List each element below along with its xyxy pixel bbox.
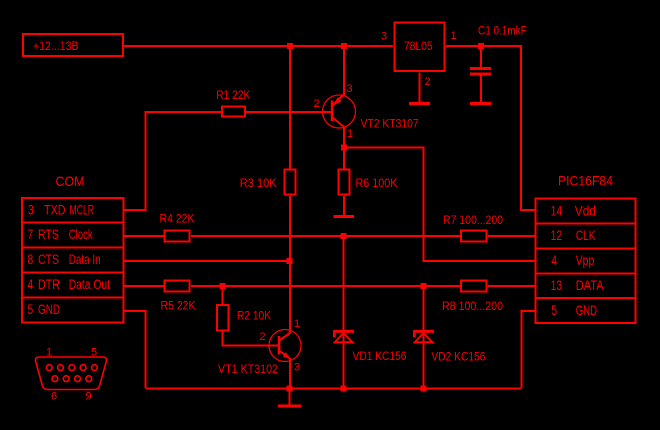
- svg-text:Data In: Data In: [69, 251, 101, 267]
- svg-text:R8 100...200: R8 100...200: [442, 301, 503, 313]
- svg-text:MCLR: MCLR: [70, 202, 95, 218]
- svg-text:GND: GND: [38, 301, 60, 317]
- svg-text:2: 2: [314, 98, 320, 110]
- svg-text:C1 0.1mkF: C1 0.1mkF: [478, 26, 527, 38]
- svg-text:14: 14: [551, 203, 563, 219]
- svg-text:2: 2: [425, 76, 431, 88]
- svg-text:CLK: CLK: [576, 227, 596, 243]
- svg-text:8: 8: [28, 251, 34, 267]
- svg-text:VT2 KT3107: VT2 KT3107: [361, 119, 419, 131]
- svg-text:1: 1: [46, 347, 52, 359]
- svg-text:TXD: TXD: [44, 202, 66, 218]
- svg-text:RTS: RTS: [38, 226, 59, 242]
- svg-text:2: 2: [260, 331, 266, 343]
- svg-text:5: 5: [28, 301, 34, 317]
- svg-text:VD2 KC156: VD2 KC156: [431, 352, 485, 364]
- svg-text:5: 5: [91, 347, 97, 359]
- svg-text:DTR: DTR: [38, 276, 60, 292]
- svg-text:R7 100...200: R7 100...200: [443, 215, 503, 227]
- svg-text:Clock: Clock: [69, 226, 94, 242]
- svg-text:VD1 KC156: VD1 KC156: [353, 351, 407, 363]
- svg-text:PIC16F84: PIC16F84: [558, 173, 613, 189]
- svg-text:6: 6: [51, 391, 57, 403]
- svg-text:1: 1: [451, 30, 457, 42]
- svg-text:3: 3: [28, 202, 34, 218]
- svg-text:12: 12: [551, 227, 563, 243]
- svg-text:+12...13B: +12...13B: [33, 41, 79, 53]
- svg-text:COM: COM: [56, 173, 85, 189]
- svg-text:1: 1: [347, 128, 353, 140]
- svg-text:4: 4: [28, 276, 34, 292]
- svg-text:R4 22K: R4 22K: [160, 214, 195, 226]
- svg-text:Data Out: Data Out: [69, 276, 110, 292]
- svg-text:13: 13: [551, 277, 563, 293]
- svg-text:4: 4: [551, 252, 557, 268]
- svg-text:1: 1: [294, 318, 300, 330]
- svg-text:3: 3: [294, 362, 300, 374]
- svg-text:78L05: 78L05: [404, 41, 433, 53]
- svg-text:VT1 KT3102: VT1 KT3102: [218, 364, 278, 376]
- svg-text:Vpp: Vpp: [576, 252, 595, 268]
- svg-text:GND: GND: [576, 302, 597, 318]
- svg-text:3: 3: [347, 83, 353, 95]
- svg-text:7: 7: [28, 226, 34, 242]
- svg-text:3: 3: [381, 31, 387, 43]
- svg-text:R3 10K: R3 10K: [240, 178, 277, 190]
- svg-text:R2 10K: R2 10K: [237, 311, 271, 323]
- svg-text:5: 5: [551, 302, 557, 318]
- svg-text:9: 9: [86, 391, 92, 403]
- svg-text:DATA: DATA: [576, 277, 604, 293]
- svg-text:R6 100K: R6 100K: [356, 178, 398, 190]
- svg-text:R1 22K: R1 22K: [216, 90, 250, 102]
- svg-text:R5 22K: R5 22K: [161, 301, 196, 313]
- svg-text:Vdd: Vdd: [575, 203, 596, 219]
- svg-text:CTS: CTS: [38, 251, 59, 267]
